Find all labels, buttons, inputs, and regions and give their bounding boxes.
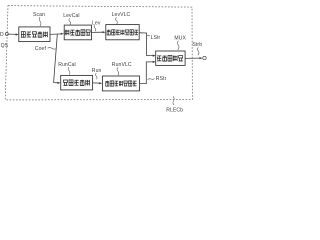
leader squiggle LevCal: [69, 18, 71, 25]
block multiplexer MUX: [156, 51, 185, 65]
svg-text:Run: Run: [92, 68, 102, 74]
leader squiggle Lev: [94, 25, 96, 31]
svg-text:RunVLC: RunVLC: [112, 62, 132, 68]
svg-text:MUX: MUX: [174, 35, 186, 41]
label RStr: [148, 79, 155, 80]
leader squiggle RLECb: [173, 96, 174, 105]
svg-text:Coef: Coef: [35, 46, 47, 52]
wire LevCal to LevVLC: [92, 31, 104, 33]
svg-text:RStr: RStr: [156, 76, 167, 82]
wire D to scanner: [8, 33, 16, 35]
block Run VLC encoder: [102, 76, 139, 91]
label LStr: [147, 34, 150, 37]
leader squiggle Scan: [39, 17, 41, 26]
block run calculator RunCal: [61, 75, 93, 90]
svg-text:LStr: LStr: [151, 35, 161, 41]
leader squiggle Strb: [198, 47, 199, 55]
leader squiggle MUX: [178, 41, 179, 50]
node output terminal O: [203, 56, 206, 59]
wire MUX output: [185, 57, 201, 59]
leader squiggle Run: [96, 73, 98, 79]
leader squiggle RunVLC: [117, 67, 119, 75]
block zigzag scanner: [19, 27, 50, 42]
svg-text:Lev: Lev: [92, 20, 101, 26]
wire scanner to LevCal: [50, 33, 62, 36]
svg-text:Strb: Strb: [192, 42, 202, 48]
leader squiggle RunCal: [68, 67, 70, 74]
svg-text:Scan: Scan: [33, 12, 45, 18]
wire LevVLC to MUX (LStr): [139, 33, 154, 56]
wire RunCal to RunVLC: [93, 82, 101, 84]
svg-text:QS: QS: [1, 43, 9, 49]
dashed enclosure box RLECb: [5, 6, 192, 100]
block Lev VLC encoder: [106, 25, 139, 40]
leader squiggle LevVLC: [116, 17, 118, 24]
wire RunVLC to MUX (RStr): [140, 62, 154, 84]
svg-text:LevVLC: LevVLC: [112, 12, 131, 18]
block level calculator LevCal: [64, 25, 91, 40]
svg-text:RLECb: RLECb: [166, 108, 183, 114]
leader squiggle Coef: [48, 48, 56, 50]
node Coef junction / branch wire down: [54, 34, 58, 82]
svg-text:D: D: [0, 32, 4, 38]
svg-text:LevCal: LevCal: [63, 13, 79, 19]
svg-text:RunCal: RunCal: [58, 62, 76, 68]
